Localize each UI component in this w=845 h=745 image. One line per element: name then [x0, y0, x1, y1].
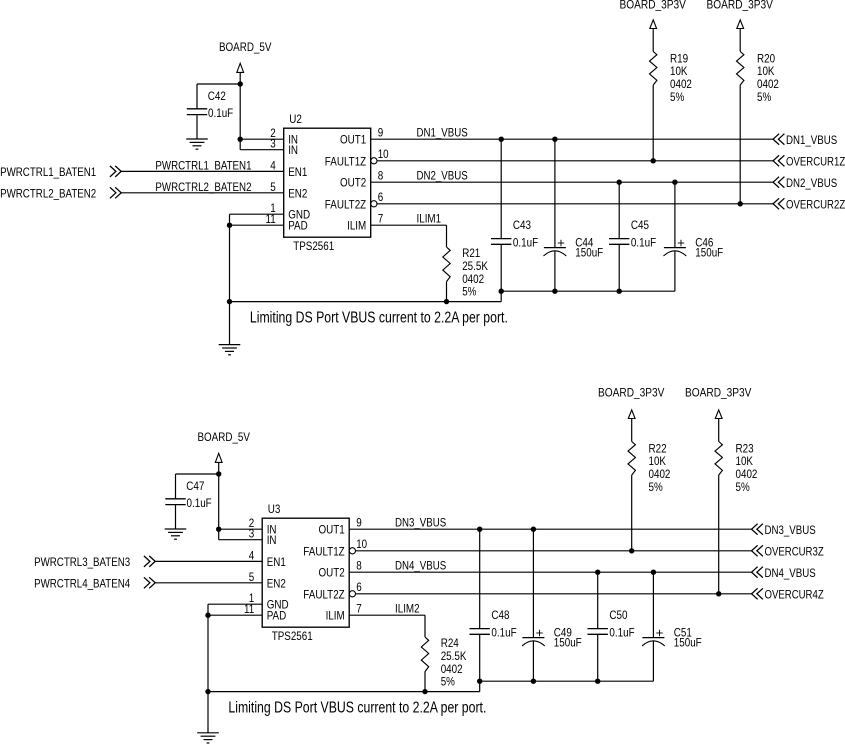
svg-text:0.1uF: 0.1uF — [631, 236, 656, 250]
svg-text:IN: IN — [267, 533, 277, 547]
svg-text:8: 8 — [356, 559, 362, 573]
svg-text:PWRCTRL2_BATEN2: PWRCTRL2_BATEN2 — [155, 180, 251, 194]
svg-text:PWRCTRL3_BATEN3: PWRCTRL3_BATEN3 — [34, 555, 130, 569]
svg-text:OUT2: OUT2 — [319, 566, 345, 580]
svg-text:6: 6 — [378, 190, 384, 204]
svg-text:DN1_VBUS: DN1_VBUS — [417, 126, 468, 140]
svg-text:PWRCTRL1_BATEN1: PWRCTRL1_BATEN1 — [155, 158, 251, 172]
svg-text:C45: C45 — [631, 218, 649, 232]
svg-text:C50: C50 — [609, 608, 627, 622]
svg-text:150uF: 150uF — [695, 245, 723, 259]
svg-text:DN4_VBUS: DN4_VBUS — [765, 566, 816, 580]
svg-text:EN2: EN2 — [288, 186, 307, 200]
svg-text:ILIM: ILIM — [326, 609, 345, 623]
svg-text:U2: U2 — [289, 112, 302, 126]
svg-text:BOARD_3P3V: BOARD_3P3V — [707, 0, 773, 12]
svg-text:0.1uF: 0.1uF — [513, 236, 538, 250]
svg-text:PAD: PAD — [288, 219, 308, 233]
svg-text:FAULT1Z: FAULT1Z — [325, 154, 366, 168]
svg-text:OUT1: OUT1 — [319, 523, 345, 537]
svg-text:C47: C47 — [186, 479, 204, 493]
svg-text:5%: 5% — [649, 480, 663, 494]
svg-text:ILIM: ILIM — [347, 219, 366, 233]
svg-text:5%: 5% — [441, 675, 455, 689]
svg-text:4: 4 — [270, 158, 276, 172]
svg-text:EN1: EN1 — [288, 165, 307, 179]
svg-text:PWRCTRL1_BATEN1: PWRCTRL1_BATEN1 — [0, 165, 96, 179]
svg-text:OVERCUR4Z: OVERCUR4Z — [765, 588, 824, 602]
svg-text:DN4_VBUS: DN4_VBUS — [395, 559, 446, 573]
svg-text:8: 8 — [378, 169, 384, 183]
svg-text:4: 4 — [249, 548, 255, 562]
svg-text:BOARD_3P3V: BOARD_3P3V — [685, 386, 751, 400]
svg-text:5%: 5% — [670, 90, 684, 104]
svg-text:PAD: PAD — [267, 609, 287, 623]
svg-text:IN: IN — [288, 143, 298, 157]
svg-text:150uF: 150uF — [554, 635, 582, 649]
svg-text:5: 5 — [270, 180, 276, 194]
svg-text:DN3_VBUS: DN3_VBUS — [765, 523, 816, 537]
svg-text:DN1_VBUS: DN1_VBUS — [786, 133, 837, 147]
svg-text:0.1uF: 0.1uF — [491, 626, 516, 640]
svg-text:150uF: 150uF — [575, 245, 603, 259]
svg-text:0.1uF: 0.1uF — [208, 106, 233, 120]
svg-text:BOARD_3P3V: BOARD_3P3V — [598, 386, 664, 400]
svg-text:DN2_VBUS: DN2_VBUS — [417, 169, 468, 183]
svg-text:U3: U3 — [268, 502, 281, 516]
svg-text:9: 9 — [356, 516, 362, 530]
svg-text:BOARD_5V: BOARD_5V — [219, 40, 272, 54]
svg-text:C48: C48 — [491, 608, 509, 622]
svg-text:DN3_VBUS: DN3_VBUS — [395, 516, 446, 530]
svg-text:FAULT1Z: FAULT1Z — [303, 544, 344, 558]
svg-text:C42: C42 — [208, 89, 226, 103]
svg-text:EN2: EN2 — [267, 576, 286, 590]
svg-text:BOARD_3P3V: BOARD_3P3V — [620, 0, 686, 12]
svg-text:5%: 5% — [757, 90, 771, 104]
svg-text:5%: 5% — [462, 285, 476, 299]
svg-text:10: 10 — [378, 147, 389, 161]
svg-text:C43: C43 — [513, 218, 531, 232]
svg-text:10: 10 — [356, 537, 367, 551]
svg-text:BOARD_5V: BOARD_5V — [197, 430, 250, 444]
svg-text:7: 7 — [378, 212, 384, 226]
svg-text:EN1: EN1 — [267, 555, 286, 569]
svg-text:OUT1: OUT1 — [340, 133, 366, 147]
svg-text:OUT2: OUT2 — [340, 176, 366, 190]
svg-text:6: 6 — [356, 580, 362, 594]
svg-text:DN2_VBUS: DN2_VBUS — [786, 176, 837, 190]
svg-text:ILIM1: ILIM1 — [417, 212, 442, 226]
svg-text:OVERCUR3Z: OVERCUR3Z — [765, 545, 824, 559]
svg-text:0.1uF: 0.1uF — [609, 626, 634, 640]
svg-text:Limiting DS Port VBUS current: Limiting DS Port VBUS current to 2.2A pe… — [228, 700, 486, 717]
svg-text:PWRCTRL2_BATEN2: PWRCTRL2_BATEN2 — [0, 186, 96, 200]
svg-text:TPS2561: TPS2561 — [272, 629, 313, 643]
svg-text:Limiting DS Port VBUS current: Limiting DS Port VBUS current to 2.2A pe… — [250, 310, 508, 327]
svg-text:5: 5 — [249, 570, 255, 584]
svg-text:TPS2561: TPS2561 — [293, 239, 334, 253]
svg-text:7: 7 — [356, 602, 362, 616]
svg-text:150uF: 150uF — [674, 635, 702, 649]
svg-text:5%: 5% — [736, 480, 750, 494]
svg-text:OVERCUR2Z: OVERCUR2Z — [786, 198, 845, 212]
svg-text:FAULT2Z: FAULT2Z — [325, 197, 366, 211]
svg-text:9: 9 — [378, 126, 384, 140]
svg-text:FAULT2Z: FAULT2Z — [303, 587, 344, 601]
svg-text:ILIM2: ILIM2 — [395, 602, 420, 616]
svg-text:OVERCUR1Z: OVERCUR1Z — [786, 155, 845, 169]
svg-text:0.1uF: 0.1uF — [187, 496, 212, 510]
svg-text:PWRCTRL4_BATEN4: PWRCTRL4_BATEN4 — [34, 576, 130, 590]
